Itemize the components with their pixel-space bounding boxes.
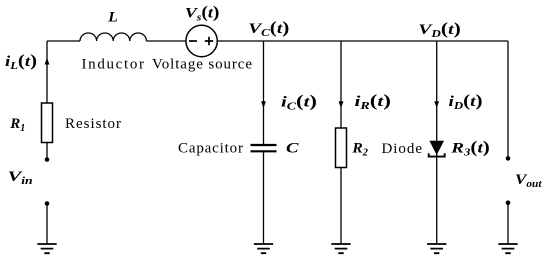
svg-text:iC(t): iC(t) [281, 92, 317, 113]
node Vout ground-side dot [506, 200, 511, 205]
svg-text:Vs(t): Vs(t) [185, 3, 220, 24]
arrow iR down [339, 101, 344, 108]
ground left [37, 244, 56, 253]
voltage source U1 circle [186, 25, 217, 56]
label Vin [8, 169, 34, 187]
diode D1 cathode bar [429, 153, 445, 156]
svg-text:Inductor: Inductor [82, 57, 145, 73]
label R1 [9, 116, 25, 134]
voltage source minus sign [189, 40, 197, 42]
svg-text:Capacitor: Capacitor [178, 141, 243, 157]
label VC(t) node [248, 18, 289, 39]
diode D1 triangle [429, 141, 444, 155]
wire R2 branch upper [340, 41, 342, 128]
label VD(t) node [418, 19, 460, 40]
label iC(t) [281, 92, 317, 113]
ground R2 [331, 244, 350, 253]
label C value [286, 141, 300, 157]
svg-text:iR(t): iR(t) [355, 91, 392, 112]
wire top-left horizontal segment [47, 40, 80, 42]
arrow iC down [261, 101, 266, 108]
wire right vertical to Vout terminal [507, 41, 509, 158]
svg-text:R3(t): R3(t) [450, 138, 490, 159]
resistor R2 body [336, 128, 347, 168]
wire Vin dot to ground [46, 204, 48, 245]
svg-text:iL(t): iL(t) [5, 51, 37, 72]
svg-text:VC(t): VC(t) [248, 18, 289, 39]
wire source to right corner [217, 40, 508, 42]
wire left vertical (inductor branch) [46, 41, 48, 103]
label R2 [351, 141, 368, 159]
wire inductor to source [146, 40, 186, 42]
label Capacitor [178, 141, 243, 157]
wire diode branch [436, 41, 438, 244]
node Vin terminal dot [45, 157, 50, 162]
ground right [498, 244, 517, 253]
wire Vout dot to ground [507, 203, 509, 244]
label Inductor [82, 57, 145, 73]
label Voltage source [152, 57, 252, 73]
arrow iL up [45, 58, 50, 65]
arrow iD down [434, 101, 439, 108]
wire capacitor branch lower [263, 152, 265, 244]
ground capacitor [254, 244, 273, 253]
svg-text:Voltage source: Voltage source [152, 57, 252, 73]
node Vout terminal dot [506, 156, 511, 161]
label iR(t) [355, 91, 392, 112]
svg-text:C: C [286, 141, 300, 157]
resistor R1 body [42, 103, 53, 143]
node Vin ground-side dot [45, 201, 50, 206]
label R3(t) [450, 138, 490, 159]
wire capacitor branch upper [263, 41, 265, 144]
wire R2 branch lower [340, 168, 342, 245]
label Diode [382, 141, 423, 157]
svg-text:L: L [107, 10, 118, 26]
label Vout [515, 172, 543, 190]
ground diode [427, 244, 446, 253]
capacitor C plates [251, 145, 277, 151]
voltage source plus sign [205, 37, 213, 45]
label L [107, 10, 118, 26]
wire R1 to Vin terminal [46, 143, 48, 160]
svg-text:iD(t): iD(t) [449, 91, 483, 112]
label Vs(t) [185, 3, 220, 24]
svg-text:Diode: Diode [382, 141, 423, 157]
label iD(t) [449, 91, 483, 112]
inductor L [80, 33, 146, 41]
label iL(t) [5, 51, 37, 72]
svg-text:Resistor: Resistor [65, 116, 121, 132]
label Resistor [65, 116, 121, 132]
